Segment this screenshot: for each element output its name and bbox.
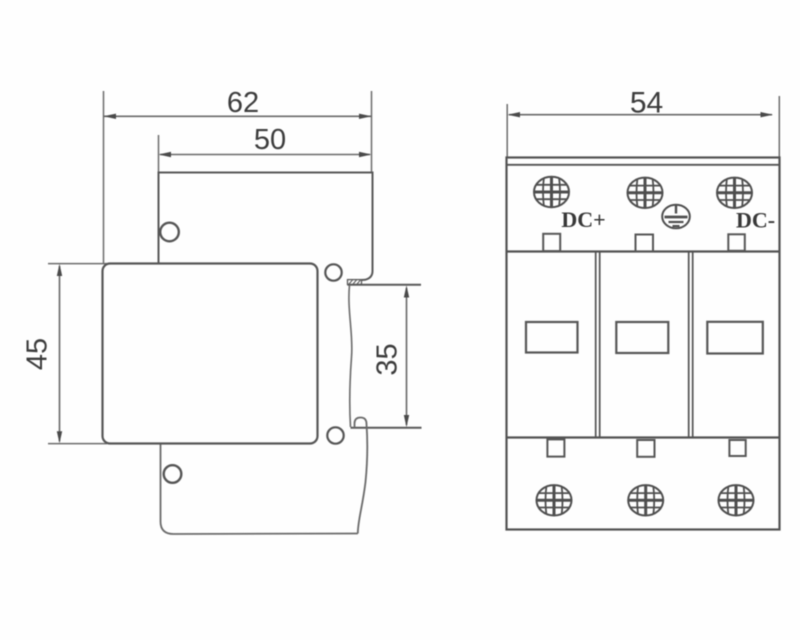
extension line right of 62/50 dims (371, 91, 373, 172)
extension lines of 54 dim (506, 104, 508, 157)
DIN rail clip foot (hook) and lower flap right edge (355, 418, 368, 534)
svg-text:50: 50 (254, 124, 286, 156)
svg-text:DC-: DC- (736, 208, 775, 233)
lower flap (rear mounting plate, bottom part) (161, 444, 358, 534)
bottom terminal squares (547, 439, 564, 456)
screw hole circle lower flap (164, 465, 182, 483)
dimension line 62 (104, 115, 371, 117)
bottom screws (536, 484, 572, 516)
upper flap (rear mounting plate, top part) (159, 173, 373, 281)
dimension 35 (406, 288, 408, 425)
circle right bottom (327, 427, 343, 443)
svg-text:DC+: DC+ (561, 207, 605, 232)
DIN rail top flange (hatched cut) (348, 280, 362, 285)
module area bottom line (507, 436, 780, 438)
dimension line 45 (59, 266, 61, 442)
DIN rail bottom edge line (351, 427, 422, 429)
main body (side view) (103, 264, 318, 444)
dimension line 50 (160, 154, 370, 156)
extension line left of 50 dim (158, 135, 160, 172)
module window right (707, 322, 763, 354)
extension line left of 62 dim (103, 91, 105, 263)
device outline (front view) (507, 158, 780, 530)
module window left (526, 322, 578, 353)
circle right top (325, 264, 341, 280)
top terminal squares (543, 234, 560, 251)
top screws (534, 176, 570, 208)
terminal area bottom line (507, 250, 780, 252)
svg-text:45: 45 (22, 338, 54, 370)
svg-text:54: 54 (630, 87, 663, 120)
screw hole circle upper flap (160, 223, 179, 242)
svg-text:62: 62 (227, 87, 259, 119)
dimension line 54 (509, 114, 772, 116)
DIN rail break (wavy) line (349, 285, 352, 427)
module divider 1 (double line) (595, 252, 597, 437)
svg-text:35: 35 (372, 343, 404, 375)
DIN rail top edge line (348, 284, 422, 286)
module window middle (616, 322, 668, 353)
module divider 2 (double line) (688, 252, 690, 437)
top strip second line (507, 164, 780, 166)
extension lines of 45 dim (48, 263, 107, 265)
earth screw (small, with ground bars) (662, 205, 690, 229)
